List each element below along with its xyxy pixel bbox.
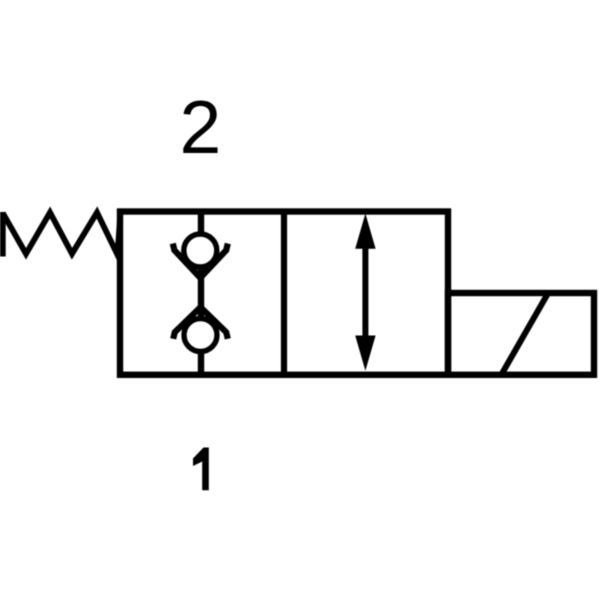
port 1 label <box>193 448 209 491</box>
solenoid box <box>448 293 594 375</box>
check valve CV2 seat (V above ball) <box>173 307 228 339</box>
valve body outline (2-position envelope) <box>120 212 448 375</box>
flow arrow head top <box>355 214 375 249</box>
flow arrow head bottom <box>355 336 375 371</box>
check valve CV2 circle (bottom ball) <box>184 319 217 352</box>
svg-text:2: 2 <box>179 85 221 169</box>
spring (return spring, left side) <box>3 212 121 257</box>
solenoid diagonal stroke <box>501 293 548 375</box>
flow arrow shaft (right position box) <box>362 240 368 346</box>
port flow line (vertical, through check valves) <box>198 212 204 375</box>
check valve CV1 seat (V below ball) <box>173 244 228 278</box>
check valve CV1 circle (top ball) <box>184 234 217 267</box>
port 2 label <box>179 85 221 169</box>
position divider line <box>281 212 287 375</box>
